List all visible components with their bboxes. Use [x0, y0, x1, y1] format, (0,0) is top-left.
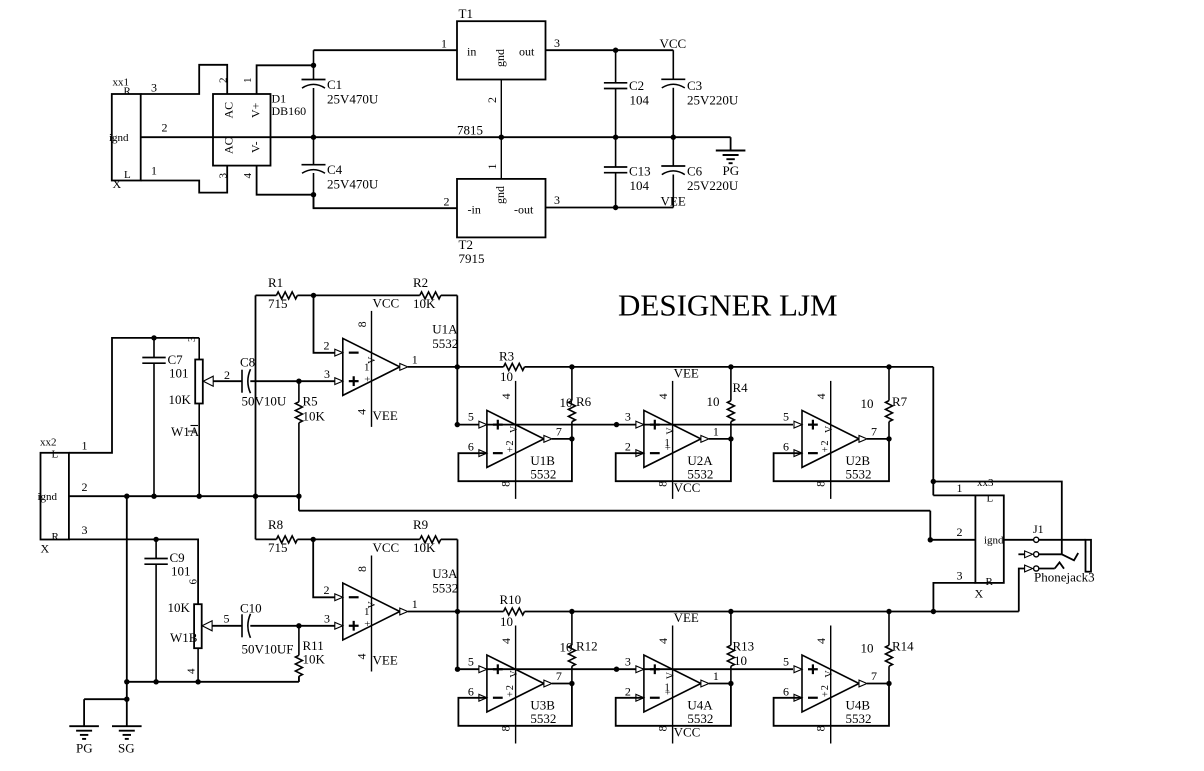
svg-text:6: 6 [783, 440, 789, 454]
svg-text:U1A: U1A [432, 321, 458, 336]
svg-text:10: 10 [707, 394, 720, 409]
svg-text:V: V [665, 671, 676, 679]
svg-text:2: 2 [820, 685, 831, 690]
resistor R6 10 [571, 367, 573, 401]
svg-text:R: R [124, 86, 132, 98]
svg-text:6: 6 [468, 440, 474, 454]
op-amp U3A 5532 [343, 583, 400, 640]
capacitor C8 50V10U [213, 380, 242, 382]
svg-text:5: 5 [468, 410, 474, 424]
regulator T1 7815 [457, 21, 546, 79]
op-amp U3B 5532 [487, 655, 544, 712]
svg-text:101: 101 [171, 564, 191, 579]
svg-text:V-: V- [249, 141, 263, 153]
wire U4A output to node [709, 683, 731, 685]
svg-text:ignd: ignd [109, 132, 129, 144]
svg-text:4: 4 [499, 638, 513, 644]
wire U3A pin 2 input [313, 539, 335, 597]
wire L channel to jack tip [933, 482, 1062, 555]
resistor R8 715 [256, 538, 277, 540]
svg-text:7: 7 [556, 424, 562, 438]
svg-text:Phonejack3: Phonejack3 [1034, 570, 1095, 585]
connector xx1 [112, 94, 141, 181]
wire U4B feedback [774, 684, 889, 726]
svg-text:2: 2 [820, 441, 831, 446]
wire U1B output to node [552, 438, 572, 440]
svg-text:X: X [975, 587, 984, 601]
svg-text:5532: 5532 [530, 711, 556, 726]
svg-text:C13: C13 [629, 164, 651, 179]
svg-text:10: 10 [500, 614, 513, 629]
svg-text:-out: -out [514, 203, 534, 217]
svg-text:AC: AC [222, 137, 236, 154]
capacitor C6 25V220U [672, 137, 674, 166]
svg-text:T1: T1 [459, 6, 473, 21]
svg-text:10K: 10K [413, 296, 436, 311]
capacitor C10 50V10UF [212, 625, 242, 627]
svg-text:+: + [664, 444, 675, 450]
svg-text:R4: R4 [733, 380, 749, 395]
svg-text:PG: PG [723, 163, 740, 178]
svg-text:1: 1 [151, 164, 157, 178]
svg-text:-in: -in [468, 203, 481, 217]
svg-text:R8: R8 [268, 517, 283, 532]
svg-text:715: 715 [268, 296, 288, 311]
svg-text:4: 4 [186, 668, 198, 674]
wire U3A output [408, 611, 458, 613]
svg-text:gnd: gnd [493, 49, 507, 67]
svg-text:5: 5 [783, 410, 789, 424]
svg-text:10K: 10K [303, 652, 326, 667]
svg-text:7: 7 [871, 424, 877, 438]
svg-text:25V470U: 25V470U [327, 92, 379, 107]
wire buffer input bus lower [458, 668, 794, 670]
svg-text:5: 5 [468, 654, 474, 668]
svg-text:2: 2 [324, 339, 330, 353]
svg-text:8: 8 [355, 321, 369, 327]
wire T1 out to VCC [546, 49, 674, 51]
op-amp U1B 5532 [487, 410, 544, 467]
svg-text:V+: V+ [249, 102, 263, 118]
svg-text:C8: C8 [240, 355, 255, 370]
svg-text:104: 104 [630, 178, 650, 193]
svg-text:+: + [664, 689, 675, 695]
svg-text:10: 10 [734, 653, 747, 668]
svg-text:4: 4 [656, 638, 670, 644]
svg-text:+: + [505, 446, 516, 452]
svg-text:R10: R10 [500, 592, 522, 607]
svg-text:VCC: VCC [674, 480, 701, 495]
svg-text:25V220U: 25V220U [687, 178, 739, 193]
potentiometer W1B 10K [194, 604, 202, 648]
resistor R12 10 [571, 612, 573, 646]
wire T2 gnd pin 1 [500, 137, 502, 179]
resistor R2 10K [314, 294, 420, 296]
capacitor C1 25V470U [313, 50, 315, 79]
svg-text:in: in [467, 45, 476, 59]
svg-text:2: 2 [82, 480, 88, 494]
svg-text:1: 1 [441, 37, 447, 51]
capacitor C9 101 [153, 537, 158, 542]
capacitor C3 25V220U [672, 50, 674, 79]
svg-text:3: 3 [151, 81, 157, 95]
svg-text:W1B: W1B [170, 630, 198, 645]
svg-text:4: 4 [656, 393, 670, 399]
svg-text:W1A: W1A [171, 424, 200, 439]
svg-text:3: 3 [625, 410, 631, 424]
svg-text:L: L [124, 169, 131, 181]
svg-text:V: V [665, 427, 676, 435]
svg-text:gnd: gnd [493, 186, 507, 204]
svg-text:V: V [509, 670, 520, 678]
potentiometer W1A 10K [198, 338, 200, 360]
svg-text:R7: R7 [892, 394, 908, 409]
wire R9 to U3A output node [457, 539, 459, 669]
svg-text:2: 2 [485, 97, 499, 103]
svg-text:2: 2 [625, 440, 631, 454]
svg-text:L: L [52, 449, 59, 461]
svg-text:DESIGNER LJM: DESIGNER LJM [618, 288, 838, 323]
wire U2B feedback [774, 439, 889, 481]
svg-text:8: 8 [355, 566, 369, 572]
wire buffer input bus upper [457, 424, 793, 426]
svg-text:10: 10 [500, 369, 513, 384]
svg-text:10: 10 [861, 641, 874, 656]
op-amp U1A 5532 [343, 338, 400, 395]
resistor R11 10K [296, 623, 301, 628]
svg-text:3: 3 [218, 173, 230, 179]
svg-text:J1: J1 [1033, 522, 1044, 536]
svg-text:5: 5 [224, 612, 230, 626]
ground SG [126, 699, 128, 726]
resistor R7 10 [888, 367, 890, 401]
svg-text:3: 3 [554, 36, 560, 50]
svg-text:1: 1 [412, 597, 418, 611]
svg-text:1: 1 [364, 606, 370, 618]
svg-text:3: 3 [324, 612, 330, 626]
wire U1A pin 2 input [314, 295, 335, 352]
svg-text:VEE: VEE [373, 408, 398, 423]
connector xx3 [975, 495, 1003, 583]
svg-text:ignd: ignd [984, 535, 1004, 547]
svg-text:VCC: VCC [674, 725, 701, 740]
svg-text:3: 3 [625, 654, 631, 668]
bridge rectifier D1 DB160 [213, 94, 271, 166]
svg-text:4: 4 [242, 173, 254, 179]
svg-text:R3: R3 [499, 348, 514, 363]
resistor R5 10K [296, 379, 301, 384]
svg-text:+: + [820, 691, 831, 697]
svg-text:2: 2 [162, 121, 168, 135]
svg-text:715: 715 [268, 540, 288, 555]
svg-text:X: X [113, 177, 122, 191]
svg-text:V: V [824, 670, 835, 678]
svg-text:VCC: VCC [373, 540, 400, 555]
svg-text:3: 3 [957, 569, 963, 583]
wire U2B output to node [867, 438, 889, 440]
wire U2A feedback [616, 439, 731, 481]
wire U2A output to node [709, 438, 731, 440]
wire U1B feedback [458, 439, 572, 481]
wire R2 to U1A output node [456, 295, 458, 424]
svg-text:25V470U: 25V470U [327, 177, 379, 192]
capacitor C2 104 [613, 48, 618, 53]
svg-text:2: 2 [505, 441, 516, 446]
resistor R3 10 [457, 366, 503, 368]
svg-text:DB160: DB160 [272, 104, 307, 118]
svg-text:5532: 5532 [687, 711, 713, 726]
capacitor C13 104 [615, 137, 617, 167]
svg-text:VEE: VEE [373, 653, 398, 668]
svg-text:C3: C3 [687, 78, 702, 93]
connector xx2 [41, 453, 69, 540]
op-amp U4B 5532 [802, 655, 859, 712]
svg-text:1: 1 [364, 361, 370, 373]
svg-text:R9: R9 [413, 517, 428, 532]
svg-text:4: 4 [814, 638, 828, 644]
svg-text:104: 104 [630, 93, 650, 108]
wire T2 out to VEE [546, 207, 674, 209]
wire L channel to xx3 pin 1 [932, 367, 934, 496]
svg-text:VCC: VCC [660, 36, 687, 51]
svg-text:7: 7 [871, 669, 877, 683]
svg-text:R6: R6 [576, 394, 592, 409]
svg-text:2: 2 [505, 685, 516, 690]
svg-text:6: 6 [783, 684, 789, 698]
svg-text:2: 2 [444, 195, 450, 209]
svg-text:xx3: xx3 [977, 477, 994, 489]
op-amp U2B 5532 [802, 410, 859, 467]
capacitor C4 25V470U [313, 137, 315, 165]
svg-text:+: + [363, 376, 374, 382]
wire U4B output to node [867, 683, 889, 685]
svg-text:101: 101 [169, 366, 189, 381]
svg-text:L: L [987, 493, 994, 505]
resistor R4 10 [730, 367, 732, 401]
svg-text:1: 1 [412, 352, 418, 366]
svg-text:C4: C4 [327, 162, 343, 177]
svg-text:SG: SG [118, 741, 135, 756]
svg-text:5532: 5532 [846, 711, 872, 726]
svg-text:1: 1 [485, 164, 499, 170]
svg-text:10K: 10K [303, 409, 326, 424]
svg-text:50V10UF: 50V10UF [242, 642, 294, 657]
svg-text:4: 4 [499, 393, 513, 399]
svg-text:+: + [820, 446, 831, 452]
svg-text:2: 2 [224, 368, 230, 382]
svg-text:C10: C10 [240, 601, 262, 616]
svg-text:2: 2 [324, 583, 330, 597]
svg-text:2: 2 [957, 525, 963, 539]
svg-text:4: 4 [814, 393, 828, 399]
svg-text:5: 5 [783, 654, 789, 668]
svg-text:PG: PG [76, 741, 93, 756]
svg-text:5532: 5532 [846, 466, 872, 481]
svg-text:V: V [509, 425, 520, 433]
svg-text:+: + [505, 691, 516, 697]
wire ignd through xx3 to jack sleeve [1004, 539, 1034, 541]
wire T1 gnd pin 2 [500, 80, 502, 138]
resistor R9 10K [313, 538, 420, 540]
wire lower output rail [572, 611, 934, 613]
svg-text:C1: C1 [327, 77, 342, 92]
resistor R1 715 [256, 294, 277, 296]
svg-text:4: 4 [355, 654, 369, 660]
svg-text:3: 3 [186, 336, 198, 342]
wire R channel to xx3 pin 3 [933, 583, 975, 612]
svg-text:AC: AC [222, 102, 236, 119]
svg-text:V: V [824, 425, 835, 433]
capacitor C7 101 [151, 335, 156, 340]
svg-text:10: 10 [861, 396, 874, 411]
svg-text:R: R [986, 576, 994, 588]
wire U4A feedback [616, 684, 731, 726]
svg-text:10: 10 [560, 640, 573, 655]
svg-text:C2: C2 [629, 78, 644, 93]
svg-text:C6: C6 [687, 164, 703, 179]
svg-text:10: 10 [560, 395, 573, 410]
svg-text:3: 3 [82, 523, 88, 537]
svg-text:6: 6 [188, 579, 200, 585]
svg-text:1: 1 [242, 78, 254, 84]
svg-text:7915: 7915 [459, 251, 485, 266]
svg-text:5532: 5532 [687, 466, 713, 481]
wire C4 node to T2 -in [314, 195, 458, 209]
regulator T2 7915 [457, 179, 546, 238]
wire ground vertical R1 R8 [255, 295, 257, 539]
svg-text:2: 2 [218, 78, 230, 84]
svg-text:4: 4 [355, 409, 369, 415]
svg-text:R: R [52, 531, 60, 543]
resistor R13 10 [730, 612, 732, 646]
svg-text:R14: R14 [892, 639, 914, 654]
wire upper output rail [572, 366, 933, 368]
wire to grounds [126, 682, 128, 699]
svg-text:10K: 10K [413, 540, 436, 555]
wire U1A output [408, 366, 458, 368]
svg-text:ignd: ignd [38, 491, 58, 503]
svg-text:R1: R1 [268, 275, 283, 290]
svg-text:+: + [363, 621, 374, 627]
resistor R10 10 [458, 611, 504, 613]
svg-text:7815: 7815 [457, 123, 483, 138]
svg-text:R13: R13 [733, 639, 755, 654]
wire U3B feedback [458, 684, 572, 726]
wire lower ignd bus [126, 496, 128, 682]
svg-text:50V10U: 50V10U [242, 394, 287, 409]
svg-text:X: X [41, 542, 50, 556]
svg-text:1: 1 [713, 424, 719, 438]
wire U3B output to node [552, 683, 572, 685]
svg-text:10K: 10K [169, 392, 192, 407]
ground PG [83, 699, 85, 726]
svg-text:1: 1 [957, 481, 963, 495]
svg-text:T2: T2 [459, 237, 473, 252]
wire ignd to xx3 pin 2 [298, 496, 300, 511]
wire bridge V- pin 4 to C4 node [257, 166, 314, 195]
resistor R14 10 [888, 612, 890, 646]
svg-text:5532: 5532 [432, 336, 458, 351]
wire bridge V+ pin 1 to C1 node [257, 65, 314, 94]
power ground PG [730, 137, 732, 150]
svg-text:3: 3 [324, 367, 330, 381]
svg-text:25V220U: 25V220U [687, 93, 739, 108]
svg-text:R2: R2 [413, 275, 428, 290]
svg-text:xx2: xx2 [40, 437, 57, 449]
svg-text:VCC: VCC [373, 295, 400, 310]
svg-text:VEE: VEE [674, 610, 699, 625]
wire C1 node to T1 in [314, 49, 458, 51]
svg-text:5532: 5532 [432, 581, 458, 596]
svg-text:5532: 5532 [530, 466, 556, 481]
svg-text:out: out [519, 45, 535, 59]
svg-text:7: 7 [556, 669, 562, 683]
svg-text:6: 6 [468, 684, 474, 698]
svg-text:VEE: VEE [674, 365, 699, 380]
svg-text:3: 3 [554, 193, 560, 207]
svg-text:1: 1 [713, 669, 719, 683]
svg-text:1: 1 [82, 439, 88, 453]
svg-text:10K: 10K [168, 600, 191, 615]
op-amp U4A 5532 [644, 655, 701, 712]
svg-text:R12: R12 [576, 639, 598, 654]
op-amp U2A 5532 [644, 410, 701, 467]
svg-text:U3A: U3A [432, 566, 458, 581]
svg-text:2: 2 [625, 684, 631, 698]
svg-text:R5: R5 [303, 394, 318, 409]
